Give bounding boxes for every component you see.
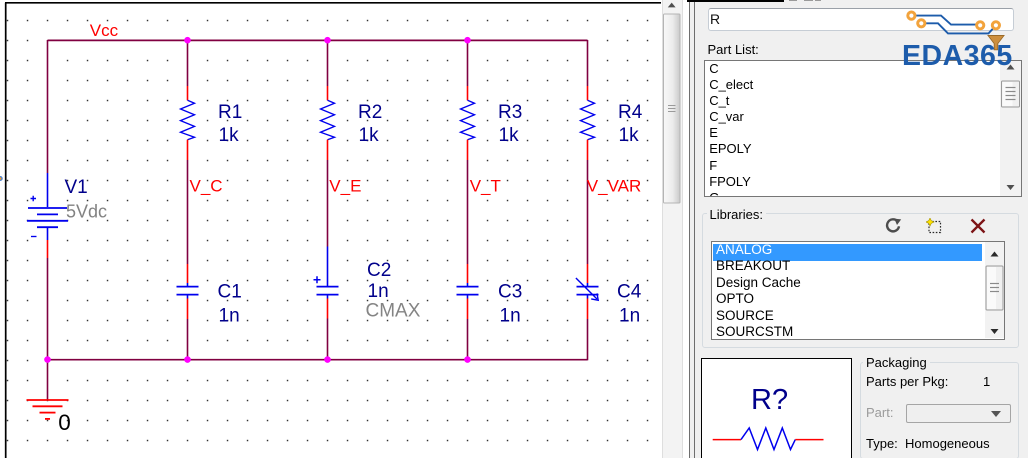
junction dot bottom V1	[44, 356, 51, 363]
svg-text:R4: R4	[618, 102, 643, 123]
svg-text:V_C: V_C	[190, 177, 223, 196]
search box	[708, 8, 1014, 31]
svg-text:1k: 1k	[359, 125, 380, 146]
wire: top horizontal Vcc net	[48, 39, 588, 41]
Packaging groupbox	[860, 362, 1020, 458]
net label Vcc	[90, 21, 119, 40]
value 1n	[368, 281, 389, 302]
svg-text:1n: 1n	[219, 305, 240, 326]
junction dot bottom col1	[184, 356, 191, 363]
capacitor C2 polarized	[314, 247, 339, 319]
svg-text:5Vdc: 5Vdc	[66, 201, 107, 221]
wire: column 3 verticals	[467, 40, 469, 360]
preview box	[701, 358, 852, 458]
svg-text:1n: 1n	[368, 281, 389, 302]
label C4	[617, 281, 642, 302]
wire: bottom horizontal ground net	[48, 359, 588, 361]
svg-text:CMAX: CMAX	[366, 300, 421, 321]
value 1n	[619, 305, 640, 326]
Libraries groupbox	[702, 213, 1019, 348]
value 5Vdc	[66, 201, 107, 221]
wire: V1 column vertical segments	[47, 40, 49, 400]
label R4	[618, 102, 643, 123]
svg-text:C4: C4	[617, 281, 642, 302]
capacitor C1	[177, 264, 199, 319]
wire: column 1 verticals	[187, 40, 189, 360]
svg-text:V1: V1	[65, 177, 88, 198]
svg-text:R2: R2	[358, 102, 382, 123]
label R3	[498, 102, 522, 123]
value 1k	[359, 125, 380, 146]
top black title remnant	[687, 0, 784, 2]
part list scrollbar	[1000, 61, 1022, 196]
svg-text:1n: 1n	[619, 305, 640, 326]
label 0	[58, 410, 71, 435]
capacitor C3	[457, 264, 479, 319]
svg-text:0: 0	[58, 410, 71, 435]
voltage source V1	[27, 173, 68, 258]
wire: column 4 verticals	[587, 40, 589, 360]
dropdown	[906, 404, 1012, 423]
capacitor C4 variable	[576, 264, 599, 319]
junction dot top col1	[184, 37, 191, 44]
svg-text:R3: R3	[498, 102, 522, 123]
svg-text:EDA365: EDA365	[902, 40, 1013, 67]
resistor R1	[181, 86, 195, 160]
svg-text:Vcc: Vcc	[90, 21, 119, 40]
junction dot bottom col2	[324, 356, 331, 363]
svg-text:C3: C3	[498, 281, 522, 302]
libraries list box	[711, 241, 1005, 340]
label R2	[358, 102, 382, 123]
label C1	[218, 281, 242, 302]
label C2	[367, 260, 391, 281]
svg-text:1k: 1k	[619, 125, 640, 146]
svg-text:C1: C1	[218, 281, 242, 302]
junction dot top col2	[324, 37, 331, 44]
svg-text:V_T: V_T	[470, 177, 501, 196]
EDA365 logo	[895, 5, 1028, 67]
new library icon	[926, 218, 943, 234]
net label V_VAR	[587, 177, 642, 196]
value 1k	[219, 125, 240, 146]
value 1k	[619, 125, 640, 146]
net label V_C	[190, 177, 223, 196]
resistor R3	[461, 86, 475, 160]
junction dot top col3	[464, 37, 471, 44]
Part List label	[708, 42, 759, 57]
junction dot bottom col3	[464, 356, 471, 363]
resistor R4	[581, 86, 595, 160]
svg-text:1k: 1k	[499, 125, 520, 146]
svg-text:R1: R1	[218, 102, 242, 123]
part list box	[704, 60, 1023, 197]
label R1	[218, 102, 242, 123]
value CMAX	[366, 300, 421, 321]
net label V_E	[329, 177, 361, 196]
value 1n	[500, 305, 521, 326]
label C3	[498, 281, 522, 302]
schematic vertical scrollbar	[662, 0, 683, 458]
wire: column 2 verticals	[327, 40, 329, 360]
svg-text:V_VAR: V_VAR	[587, 177, 642, 196]
svg-text:1n: 1n	[500, 305, 521, 326]
svg-text:1k: 1k	[219, 125, 240, 146]
resistor R2	[321, 86, 335, 160]
panel splitter lines	[689, 0, 690, 458]
value 1k	[499, 125, 520, 146]
svg-text:V_E: V_E	[329, 177, 361, 196]
delete X icon	[969, 218, 987, 234]
window border	[5, 3, 661, 458]
svg-text:C2: C2	[367, 260, 391, 281]
value 1n	[219, 305, 240, 326]
libraries list scrollbar	[985, 242, 1004, 338]
ground symbol 0	[27, 400, 69, 419]
net label V_T	[470, 177, 501, 196]
refresh icon	[884, 218, 902, 235]
toolbar sliver icon at far left edge	[0, 177, 2, 181]
schematic canvas	[0, 0, 690, 458]
wire underlay erase	[46, 39, 589, 400]
label V1	[65, 177, 88, 198]
